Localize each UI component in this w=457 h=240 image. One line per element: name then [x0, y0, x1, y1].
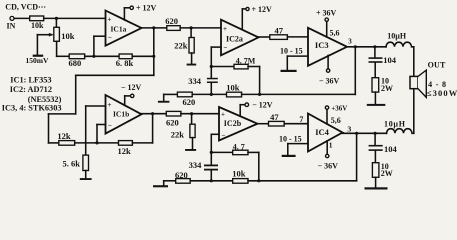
- svg-text:+: +: [108, 15, 112, 23]
- capacitor 334 bottom: [189, 160, 218, 181]
- resistor 6.8k feedback: [116, 54, 134, 68]
- junction dot 22k bottom node: [190, 112, 193, 115]
- op-amp IC2a: [221, 20, 259, 56]
- svg-text:+: +: [108, 101, 112, 109]
- ground 22k top: [187, 64, 197, 66]
- wire 6.8k to output node: [132, 55, 154, 57]
- svg-text:3: 3: [348, 37, 352, 45]
- resistor 620 series bottom: [166, 111, 181, 127]
- ground IC4: [282, 155, 296, 157]
- svg-text:−: −: [108, 34, 112, 42]
- inductor 10uH bottom: [384, 120, 414, 134]
- svg-text:IC1a: IC1a: [111, 25, 127, 34]
- wire 12k to IC1b out: [132, 114, 152, 143]
- wire 12k rail: [75, 142, 119, 144]
- svg-text:104: 104: [384, 144, 398, 154]
- junction dot IC1b out: [151, 112, 154, 115]
- ground wiper: [33, 55, 44, 57]
- wire IC1b - input: [97, 125, 106, 143]
- svg-text:7: 7: [299, 115, 303, 124]
- pin 3 label IC4: [347, 124, 351, 133]
- svg-text:5,6: 5,6: [330, 28, 340, 37]
- wire 620 to IC2b: [181, 113, 219, 115]
- ground feedback rail top: [158, 94, 178, 102]
- ground 22k bottom: [185, 149, 196, 151]
- resistor 680: [69, 54, 85, 68]
- svg-text:5,6: 5,6: [331, 116, 341, 125]
- wire IC2b out: [258, 123, 269, 125]
- op-amp IC2b: [219, 107, 258, 141]
- svg-text:12k: 12k: [118, 146, 132, 156]
- svg-text:10k: 10k: [61, 31, 75, 41]
- svg-text:IN: IN: [7, 22, 16, 31]
- svg-text:≤300W: ≤300W: [427, 88, 457, 98]
- svg-text:47: 47: [270, 112, 279, 122]
- supply -36V IC4 pin 1: [318, 141, 339, 171]
- junction dot 4.7 leg bottom: [257, 179, 260, 182]
- supply +12V IC1a: [124, 4, 156, 20]
- supply +36V IC4: [325, 104, 347, 125]
- ground feedback rail bottom: [153, 181, 176, 188]
- svg-text:22k: 22k: [174, 41, 188, 51]
- ground IC3: [281, 70, 297, 72]
- wire speaker bottom: [413, 89, 415, 134]
- svg-text:4. 7M: 4. 7M: [236, 56, 256, 65]
- junction dot feedback takeoff: [354, 45, 357, 48]
- op-amp IC1a: [106, 11, 142, 46]
- supply -36V IC3: [319, 55, 340, 85]
- wire IN to R 10k: [14, 17, 30, 19]
- ground bottom zobel: [365, 187, 388, 189]
- junction dot IC1a out: [152, 26, 155, 29]
- wire pot wiper arm: [37, 33, 53, 55]
- wire IC4 output rail: [343, 132, 387, 134]
- svg-text:10 - 15: 10 - 15: [280, 47, 303, 56]
- note text IC list: [2, 76, 62, 113]
- svg-text:+36V: +36V: [331, 104, 347, 112]
- svg-text:−: −: [108, 122, 112, 130]
- svg-text:3: 3: [347, 124, 351, 133]
- junction dot feedback node: [152, 55, 155, 58]
- svg-text:IC2: AD712: IC2: AD712: [10, 85, 52, 94]
- wire IC2b - input: [211, 134, 219, 164]
- resistor 4.7M: [211, 56, 259, 94]
- supply -12V IC1b: [121, 83, 142, 105]
- op-amp IC1b: [106, 95, 142, 134]
- wire IC3 pins 10-15 to ground: [280, 47, 308, 70]
- svg-text:12k: 12k: [57, 131, 71, 141]
- resistor 5.6k: [63, 155, 89, 178]
- svg-text:22k: 22k: [171, 129, 185, 139]
- capacitor 104 top zobel: [369, 47, 397, 65]
- resistor 10k input: [30, 16, 44, 30]
- svg-text:150mV: 150mV: [26, 56, 49, 65]
- wire IC1b output: [142, 113, 167, 115]
- resistor 47 bottom: [269, 112, 285, 126]
- wire to speaker top: [413, 47, 415, 77]
- svg-text:1: 1: [329, 141, 333, 150]
- wire IC4 pins 10-15 to ground: [279, 134, 308, 154]
- svg-text:680: 680: [69, 58, 82, 68]
- resistor 4.7M bottom: [211, 142, 258, 180]
- inductor 10uH top: [386, 32, 414, 47]
- wire pot top lead: [55, 18, 57, 27]
- power-amp IC3: [308, 28, 347, 66]
- resistor 22k top: [174, 28, 194, 64]
- wire to IC1a - input: [94, 36, 106, 56]
- junction node IC1a inverting: [92, 55, 95, 58]
- wire 620 to 10k bottom: [190, 180, 233, 182]
- power-amp IC4: [308, 114, 343, 152]
- capacitor 104 bottom zobel: [369, 133, 398, 154]
- svg-text:2W: 2W: [381, 169, 393, 178]
- svg-text:10µH: 10µH: [387, 32, 407, 41]
- svg-text:−: −: [222, 131, 226, 139]
- svg-text:620: 620: [183, 97, 196, 107]
- resistor 620 feedback top: [177, 92, 195, 107]
- speaker: [410, 60, 457, 98]
- svg-text:CD, VCD⋯: CD, VCD⋯: [5, 3, 46, 12]
- supply +36V IC3: [316, 9, 340, 38]
- junction dot feedback takeoff bottom: [355, 132, 358, 135]
- svg-text:10k: 10k: [232, 168, 246, 178]
- junction dot fb node B: [210, 151, 213, 154]
- junction dot 12k node: [95, 141, 98, 144]
- svg-text:6. 8k: 6. 8k: [116, 58, 134, 68]
- wire pot bottom to 680: [57, 41, 70, 56]
- wire 47 to IC4 pin 7: [284, 115, 308, 124]
- svg-text:IC3, 4: STK6303: IC3, 4: STK6303: [2, 103, 62, 112]
- svg-text:+ 12V: + 12V: [136, 4, 157, 13]
- wire 620 to IC2a + input: [180, 27, 221, 29]
- ground top zobel: [367, 104, 386, 106]
- wire IC1a output: [142, 27, 167, 29]
- svg-text:10µH: 10µH: [384, 120, 406, 129]
- svg-text:+ 12V: + 12V: [252, 5, 273, 14]
- svg-text:−: −: [224, 44, 228, 52]
- svg-text:− 36V: − 36V: [318, 162, 339, 171]
- svg-text:334: 334: [189, 160, 203, 170]
- junction dot 22k node: [190, 26, 193, 29]
- resistor 620 feedback bottom: [175, 170, 190, 183]
- svg-text:2W: 2W: [381, 84, 393, 93]
- junction dot cap bottom node: [210, 179, 213, 182]
- svg-text:334: 334: [188, 76, 202, 86]
- svg-text:OUT: OUT: [428, 60, 446, 69]
- potentiometer 10k: [54, 27, 75, 41]
- resistor 10k feedback bottom: [232, 168, 248, 183]
- svg-text:47: 47: [275, 25, 284, 35]
- wire feedback rail to IC4 output: [248, 133, 357, 181]
- wire 620 to 10k: [192, 93, 226, 95]
- wire IC2a out: [259, 36, 270, 38]
- resistor 10 2W bottom zobel: [372, 151, 392, 187]
- svg-text:− 12V: − 12V: [252, 101, 273, 110]
- resistor 10 2W top zobel: [372, 63, 393, 104]
- wire R10k to IC1a + input: [44, 17, 106, 19]
- supply -12V IC2b: [240, 101, 273, 117]
- junction dot input node: [55, 17, 58, 20]
- terminal IN: [7, 16, 16, 30]
- svg-text:IC2a: IC2a: [226, 35, 243, 44]
- wire 680 to 6.8k: [85, 55, 119, 57]
- svg-text:IC1: LF353: IC1: LF353: [10, 76, 51, 85]
- wire IC3 output rail: [347, 46, 386, 48]
- svg-text:620: 620: [175, 170, 188, 180]
- wire IC2a - input: [211, 47, 221, 78]
- junction dot zobel bottom: [374, 132, 377, 135]
- svg-text:+ 36V: + 36V: [316, 9, 337, 18]
- resistor 12k input: [57, 131, 74, 145]
- svg-text:− 12V: − 12V: [121, 83, 142, 92]
- svg-text:10 - 15: 10 - 15: [279, 134, 302, 143]
- svg-text:IC2b: IC2b: [224, 119, 242, 128]
- wire feedback rail to IC3 output: [242, 47, 356, 95]
- resistor 12k feedback: [118, 141, 133, 157]
- svg-text:IC4: IC4: [315, 127, 329, 137]
- pin 3 label IC3: [348, 37, 352, 45]
- resistor 47 top: [270, 25, 288, 39]
- svg-text:104: 104: [383, 55, 397, 65]
- resistor 22k bottom: [171, 114, 195, 149]
- svg-text:− 36V: − 36V: [319, 77, 340, 86]
- wire feedback drop to IC1b path: [49, 28, 154, 143]
- resistor 10k feedback top: [226, 82, 241, 97]
- junction dot 4.7M leg: [258, 93, 261, 96]
- ground 5.6k: [80, 178, 92, 180]
- svg-text:+: +: [221, 111, 225, 119]
- wire IC1b + input: [86, 106, 106, 155]
- svg-text:IC1b: IC1b: [113, 110, 129, 119]
- wire 47 to IC3: [287, 36, 308, 38]
- svg-text:10k: 10k: [31, 21, 44, 30]
- capacitor 334 top: [188, 76, 217, 94]
- junction dot zobel top: [373, 45, 376, 48]
- svg-text:620: 620: [166, 117, 179, 127]
- svg-text:5. 6k: 5. 6k: [63, 159, 81, 169]
- junction dot fb node A: [210, 65, 213, 68]
- svg-text:10k: 10k: [226, 82, 240, 92]
- resistor 620 series top: [165, 16, 180, 30]
- svg-text:+: +: [223, 25, 227, 33]
- svg-text:IC3: IC3: [315, 40, 329, 50]
- svg-text:620: 620: [165, 16, 178, 26]
- svg-text:4. 7: 4. 7: [233, 142, 245, 151]
- node label CD,VCD source text: [5, 3, 46, 12]
- supply +12V IC2a: [242, 5, 272, 30]
- value label 150mV: [26, 56, 49, 65]
- junction dot cap node: [210, 93, 213, 96]
